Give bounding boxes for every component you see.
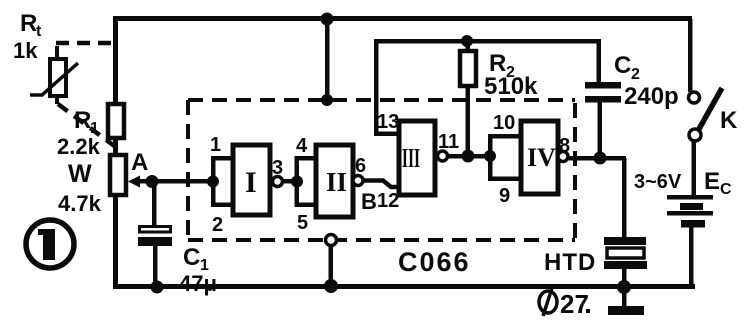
wire: R1 to W <box>113 138 118 156</box>
svg-text:1k: 1k <box>13 38 38 63</box>
capacitor C1 <box>138 227 172 247</box>
op-amp gate I body <box>233 145 270 215</box>
junction dot C2 bottom node <box>594 152 607 165</box>
capacitor C1 lower wire <box>153 246 158 287</box>
wire: node A to gate I input <box>152 179 213 184</box>
wire: output node to HTD riser <box>622 158 627 237</box>
svg-text:10: 10 <box>493 112 515 134</box>
gate IV input bracket <box>488 134 521 181</box>
resistor R2 label <box>489 50 515 81</box>
thermistor Rt label <box>20 10 42 40</box>
wire: battery to ground rail <box>689 227 694 289</box>
svg-text:B: B <box>361 189 377 214</box>
junction dot on top rail <box>321 13 334 26</box>
wire: top rail to switch K <box>688 19 693 92</box>
wire: dashed diagonal from Rt to R1 bottom <box>58 104 117 148</box>
svg-text:8: 8 <box>559 135 570 157</box>
switch K lever <box>699 88 722 129</box>
wire: left rail from Rt tap down to R1 top <box>113 41 118 105</box>
node A junction dot <box>146 175 159 188</box>
svg-text:47μ: 47μ <box>179 271 217 296</box>
svg-text:13: 13 <box>377 111 399 133</box>
resistor R2 feedback top wire <box>374 39 601 44</box>
svg-text:12: 12 <box>377 190 399 212</box>
svg-text:510k: 510k <box>484 73 538 100</box>
svg-text:4: 4 <box>296 135 308 157</box>
capacitor C2 top riser <box>597 41 602 82</box>
svg-text:9: 9 <box>499 185 510 207</box>
resistor R1 label <box>74 107 99 137</box>
svg-text:K: K <box>720 107 738 134</box>
wire: gate I output to gate II input <box>283 179 297 184</box>
gate I input bracket <box>211 156 233 207</box>
svg-text:A: A <box>131 149 148 176</box>
capacitor C1 riser <box>152 181 157 226</box>
junction dot on IC box top <box>321 94 333 106</box>
svg-text:2: 2 <box>631 66 640 83</box>
svg-text:240p: 240p <box>624 83 679 110</box>
wire: W bottom to ground rail <box>113 195 118 288</box>
svg-text:II: II <box>326 167 347 197</box>
IC C066 dashed box <box>188 100 575 240</box>
svg-text:6: 6 <box>355 155 366 177</box>
wire: gate II output to gate III pin 12 <box>363 181 399 188</box>
gate IV output bubble <box>558 152 568 162</box>
wire: gate III output to node <box>447 154 468 159</box>
switch K bottom terminal <box>689 129 701 141</box>
svg-text:C: C <box>614 52 631 79</box>
resistor R2 lower riser <box>466 86 471 156</box>
ground stem <box>622 287 627 307</box>
svg-text:IV: IV <box>527 143 556 172</box>
svg-text:C: C <box>183 244 200 271</box>
wire: top supply rail <box>113 16 692 21</box>
op-amp gate II body <box>316 145 353 217</box>
potentiometer W <box>110 155 126 195</box>
svg-text:3: 3 <box>272 157 283 179</box>
svg-text:III: III <box>402 143 420 174</box>
resistor R2 <box>460 51 476 86</box>
potentiometer W wiper arrow <box>128 176 154 188</box>
svg-text:C: C <box>720 181 732 198</box>
gate I input junction dot <box>207 176 219 188</box>
svg-text:5: 5 <box>297 212 308 234</box>
svg-text:E: E <box>704 168 720 195</box>
svg-text:11: 11 <box>438 131 459 153</box>
junction dot pin7 on ground rail <box>324 279 338 293</box>
svg-text:1: 1 <box>210 134 221 156</box>
junction dot HTD on rail <box>617 280 631 294</box>
wire: switch to battery <box>692 141 697 196</box>
junction dot R2 bottom node <box>462 150 475 163</box>
capacitor C2 <box>585 82 621 103</box>
svg-text:I: I <box>245 166 257 199</box>
gate II input bracket <box>295 156 317 207</box>
op-amp gate III body <box>399 121 435 195</box>
svg-text:2: 2 <box>212 214 223 236</box>
switch K top terminal <box>689 92 700 103</box>
wire: Vdd riser to IC pin 14 <box>325 19 330 100</box>
junction dot R2 top <box>461 35 473 47</box>
battery Ec <box>667 195 713 228</box>
svg-text:R: R <box>74 107 91 134</box>
resistor R2 upper stub <box>466 41 471 53</box>
capacitor C1 label <box>183 244 209 274</box>
svg-text:C066: C066 <box>398 247 471 277</box>
wire: gate IV output east <box>568 156 626 161</box>
ground bar <box>608 306 644 315</box>
thermistor Rt dashed link to left rail <box>56 41 114 46</box>
gate I output bubble <box>273 177 283 187</box>
HTD diameter label <box>539 288 590 319</box>
resistor R1 <box>108 104 124 138</box>
junction dot gate II input <box>291 176 303 188</box>
wire: top-left step vertical <box>113 16 118 44</box>
svg-text:2.2k: 2.2k <box>57 134 101 159</box>
capacitor C2 label <box>614 52 640 83</box>
op-amp gate IV body <box>521 121 558 194</box>
buzzer HTD <box>604 237 647 269</box>
wire: HTD to ground rail <box>622 269 627 287</box>
svg-text:3~6V: 3~6V <box>634 171 682 193</box>
gate III output bubble <box>438 151 448 161</box>
figure number circle 1 <box>26 220 74 268</box>
wire: pin 7 to ground rail <box>329 245 334 285</box>
svg-text:4.7k: 4.7k <box>58 191 102 216</box>
thermistor Rt body <box>30 46 78 104</box>
svg-text:R: R <box>20 10 37 37</box>
svg-text:27: 27 <box>560 289 589 319</box>
gate II output bubble <box>353 176 363 186</box>
junction dot gate IV input <box>484 150 496 162</box>
svg-text:W: W <box>68 160 92 188</box>
battery Ec label <box>704 168 732 198</box>
wire: bottom ground rail <box>113 284 695 289</box>
IC pin 7 terminal circle <box>326 235 337 246</box>
wire: feedback riser to gate III pin 13 <box>374 41 398 136</box>
capacitor C1 junction dot on rail <box>151 281 164 294</box>
wire: node to gate IV bracket <box>468 154 490 159</box>
svg-text:HTD: HTD <box>544 249 596 276</box>
capacitor C2 bottom riser <box>598 102 603 158</box>
